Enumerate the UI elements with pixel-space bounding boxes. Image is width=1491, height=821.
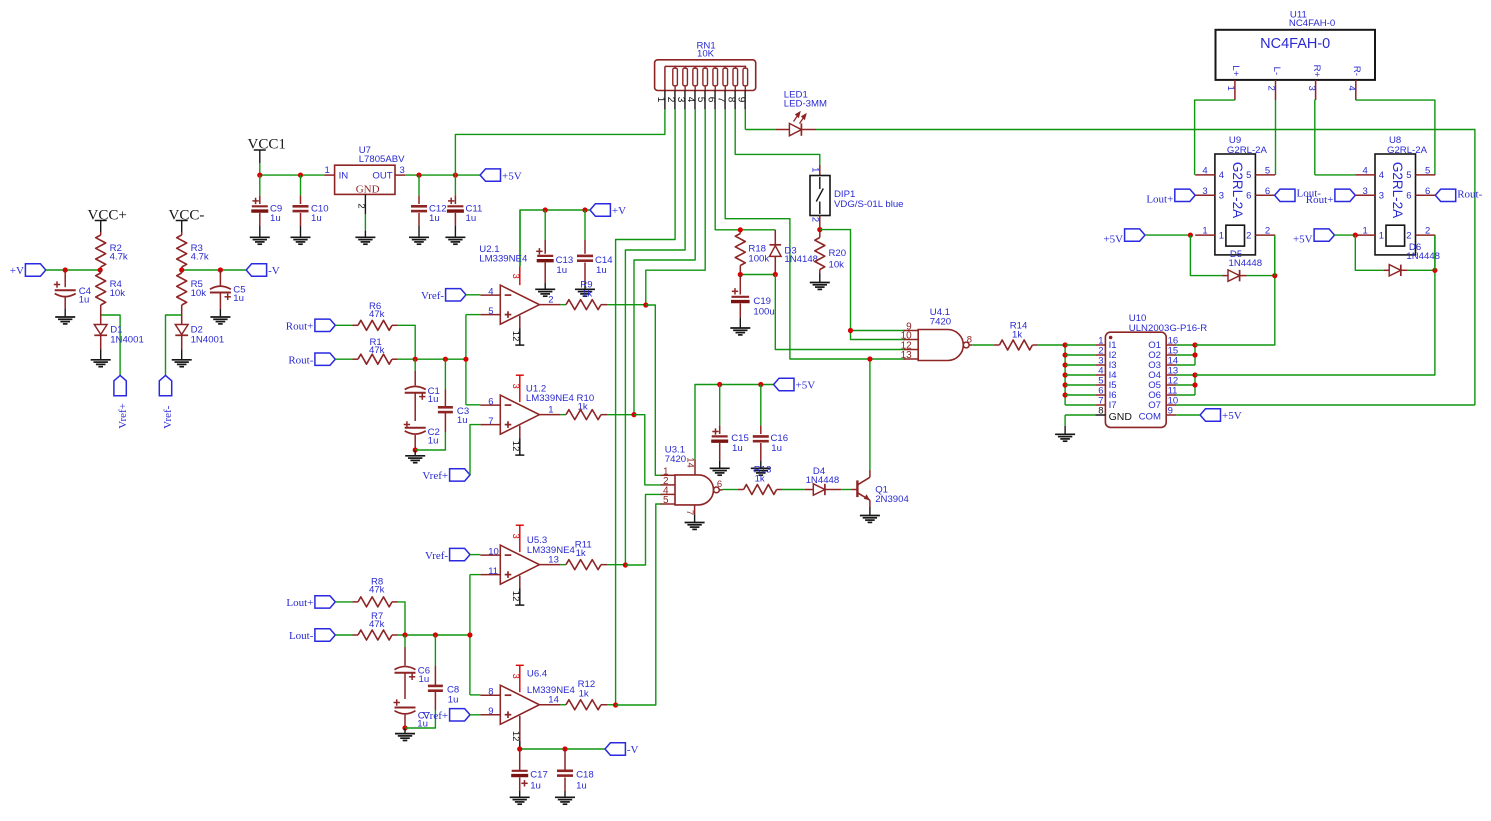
resistor R2 xyxy=(96,232,106,270)
svg-text:3: 3 xyxy=(675,97,686,103)
ground xyxy=(860,516,880,523)
junction xyxy=(298,173,303,178)
svg-text:1u: 1u xyxy=(448,694,459,705)
capacitor C17 xyxy=(511,749,528,797)
svg-text:VCC+: VCC+ xyxy=(88,208,127,224)
wire RN1 pin8 net xyxy=(735,109,820,165)
svg-text:11: 11 xyxy=(488,566,498,577)
junction xyxy=(416,173,421,178)
junction xyxy=(1063,352,1068,357)
svg-text:6: 6 xyxy=(1246,191,1251,202)
svg-text:5: 5 xyxy=(695,97,706,103)
svg-text:Lout+: Lout+ xyxy=(1146,194,1173,206)
svg-text:3: 3 xyxy=(510,674,521,679)
label C16 1u xyxy=(771,433,789,454)
wire R11 out xyxy=(607,564,625,566)
port +5V xyxy=(480,169,522,182)
capacitor C10 xyxy=(293,175,309,237)
junction xyxy=(1272,273,1277,278)
label R8 47k xyxy=(369,577,385,596)
junction xyxy=(631,412,636,417)
ground xyxy=(55,317,75,324)
label C13 1u xyxy=(556,255,574,276)
svg-text:4: 4 xyxy=(1202,166,1207,177)
ground xyxy=(250,237,270,244)
capacitor C12 xyxy=(411,175,427,237)
svg-text:1u: 1u xyxy=(771,443,782,454)
junction xyxy=(1188,233,1193,238)
svg-text:U6.4: U6.4 xyxy=(527,668,548,679)
svg-text:I7: I7 xyxy=(1109,400,1117,411)
svg-text:10k: 10k xyxy=(110,288,126,299)
svg-text:1u: 1u xyxy=(732,443,743,454)
capacitor C16 xyxy=(753,385,769,469)
power flag VCC- xyxy=(169,208,205,232)
junction xyxy=(1432,268,1437,273)
label R11 1k xyxy=(575,539,592,559)
wire RN1 pin6 net xyxy=(715,109,775,229)
wire LED to O7 riser xyxy=(816,130,1475,406)
label C8 1u xyxy=(447,685,459,706)
wire Vref- to pin10 xyxy=(470,554,480,556)
wire U11 pin3 to U8 pin4 xyxy=(1314,100,1317,175)
junction xyxy=(413,447,418,452)
svg-text:1u: 1u xyxy=(596,265,607,276)
label U7 L7805ABV xyxy=(359,145,405,165)
label C1 1u xyxy=(428,386,440,405)
port Rout- xyxy=(1435,189,1482,202)
wire pin5 net xyxy=(466,315,481,405)
svg-text:1k: 1k xyxy=(755,474,765,485)
LED LED1 xyxy=(775,112,816,136)
svg-text:Vref-: Vref- xyxy=(162,405,174,428)
port Lout- xyxy=(1275,188,1322,202)
junction xyxy=(738,227,743,232)
label R9 1k xyxy=(580,280,592,300)
wire O1 net riser xyxy=(1195,235,1275,345)
wire O1-O3 bus xyxy=(1176,345,1195,365)
svg-text:1u: 1u xyxy=(466,213,477,224)
wire D6 to U8 coil net xyxy=(1408,269,1435,271)
wire Rout row xyxy=(398,358,466,360)
junction xyxy=(443,357,448,362)
svg-text:C17: C17 xyxy=(530,770,548,781)
wire U11 pin4 to U8 pin5 xyxy=(1356,100,1435,175)
label U5.3 LM339NE4 xyxy=(527,535,576,556)
svg-text:ULN2003G-P16-R: ULN2003G-P16-R xyxy=(1129,323,1207,334)
wire R9 to U3 pin1 xyxy=(646,305,661,475)
label R1 47k xyxy=(369,337,385,356)
port +V xyxy=(10,264,46,277)
diode D5 xyxy=(1223,270,1247,281)
svg-text:10K: 10K xyxy=(697,48,715,59)
junction xyxy=(257,173,262,178)
label R18 100k xyxy=(748,244,769,265)
wire U8 pin2 down xyxy=(1434,235,1436,270)
label RN1 10K xyxy=(697,40,716,59)
wire R8 elbow xyxy=(398,602,406,635)
wire R18-D3 bottoms xyxy=(740,274,775,276)
svg-text:7: 7 xyxy=(488,416,493,427)
resistor R18 xyxy=(735,230,745,275)
junction xyxy=(1353,233,1358,238)
label U3.1 7420 xyxy=(665,444,686,465)
label U9 G2RL-2A xyxy=(1227,135,1268,156)
wire C8 to ground node xyxy=(405,710,435,728)
svg-text:1u: 1u xyxy=(419,674,430,685)
wire to U10 input xyxy=(1065,374,1095,376)
junction xyxy=(1192,372,1197,377)
svg-text:1u: 1u xyxy=(457,415,468,426)
diode D1 xyxy=(94,310,107,360)
svg-text:1k: 1k xyxy=(579,689,589,700)
capacitor C11 xyxy=(447,175,464,237)
port Vref+ xyxy=(422,709,470,722)
wire O7 net xyxy=(1176,404,1475,406)
wire +5V to U8 pin1 xyxy=(1335,234,1356,236)
capacitor C6 xyxy=(395,635,416,699)
wire DIP1 to U4 inputs xyxy=(820,230,906,331)
label R14 1k xyxy=(1010,320,1028,340)
svg-text:4: 4 xyxy=(1346,86,1357,91)
wire R14 to U10 inputs xyxy=(1038,344,1065,346)
label C15 1u xyxy=(731,433,749,454)
wire to U10 input xyxy=(1065,384,1095,386)
resistor R8 xyxy=(335,597,397,607)
svg-text:1N4148: 1N4148 xyxy=(784,254,818,265)
port Vref- xyxy=(421,289,466,302)
ground xyxy=(91,360,111,367)
svg-text:C19: C19 xyxy=(753,296,771,307)
label R20 10k xyxy=(829,248,847,270)
svg-text:2: 2 xyxy=(1265,226,1270,237)
junction xyxy=(413,357,418,362)
diode D2 xyxy=(175,310,188,360)
connector U11 NC4FAH-0 xyxy=(1216,30,1376,100)
label C5 1u xyxy=(233,284,245,304)
svg-text:O7: O7 xyxy=(1148,400,1161,411)
svg-text:6: 6 xyxy=(705,97,716,103)
svg-text:1: 1 xyxy=(810,167,821,172)
svg-text:GND: GND xyxy=(1109,411,1133,423)
wire RN1 pin7 net xyxy=(725,109,905,359)
wire U11 pin1 to U9 pin4 xyxy=(1195,100,1235,175)
wire VCC1 rail xyxy=(260,174,480,176)
junction xyxy=(848,328,853,333)
svg-text:Vref-: Vref- xyxy=(421,290,444,302)
capacitor C1 xyxy=(405,359,426,421)
ground xyxy=(730,328,750,335)
op-amp U5.3 xyxy=(500,545,539,584)
port Vref- xyxy=(425,548,470,561)
label C4 1u xyxy=(79,286,92,306)
label R6 47k xyxy=(369,301,385,320)
label R2 4.7k xyxy=(110,243,128,263)
switch DIP1 xyxy=(810,165,830,230)
wire +5V rail U3 xyxy=(695,385,774,460)
port +5V xyxy=(1103,229,1145,245)
wire to Vref- port xyxy=(166,315,182,375)
svg-text:1u: 1u xyxy=(270,213,281,224)
svg-text:13: 13 xyxy=(901,350,913,361)
capacitor C2 xyxy=(404,421,426,450)
svg-text:VCC1: VCC1 xyxy=(248,137,286,153)
svg-text:LED-3MM: LED-3MM xyxy=(784,99,827,110)
resistor network RN1 xyxy=(655,60,756,91)
svg-text:3: 3 xyxy=(1306,86,1317,91)
label LED1 LED-3MM xyxy=(784,89,827,109)
svg-text:4.7k: 4.7k xyxy=(191,252,209,263)
op-amp U6.4 xyxy=(500,685,539,724)
svg-text:NC4FAH-0: NC4FAH-0 xyxy=(1260,36,1330,52)
svg-text:R-: R- xyxy=(1351,66,1362,76)
ground xyxy=(685,523,705,530)
svg-text:2: 2 xyxy=(1406,230,1411,241)
junction xyxy=(1063,342,1068,347)
wire +5V to RN1 pin1 xyxy=(455,109,665,175)
wire U10 input bus xyxy=(1064,345,1066,405)
diode D3 xyxy=(770,230,782,275)
wire RN1 pin9 to LED xyxy=(744,109,746,129)
wire U9 pin2 down xyxy=(1274,235,1276,276)
label U6.4 LM339NE4 xyxy=(527,668,576,696)
wire Vref+ to pin7 xyxy=(470,425,480,475)
svg-text:1k: 1k xyxy=(576,548,586,559)
label R3 4.7k xyxy=(191,243,209,263)
svg-text:4: 4 xyxy=(685,97,696,103)
svg-text:7420: 7420 xyxy=(665,454,686,465)
junction xyxy=(738,272,743,277)
port Lout+ xyxy=(286,596,335,609)
ground xyxy=(535,289,555,296)
svg-text:13: 13 xyxy=(548,554,559,565)
svg-text:2: 2 xyxy=(810,217,821,222)
wire R10 to U3 pin2 xyxy=(634,415,661,485)
svg-text:3: 3 xyxy=(1219,191,1224,202)
junction xyxy=(1063,362,1068,367)
wire R10 out xyxy=(607,414,634,416)
resistor R3 xyxy=(177,232,187,270)
port -V xyxy=(246,264,280,277)
svg-text:NC4FAH-0: NC4FAH-0 xyxy=(1289,18,1335,29)
resistor R10 xyxy=(560,410,607,420)
junction xyxy=(179,267,184,272)
capacitor C5 xyxy=(210,270,231,317)
wire O4 net riser xyxy=(1195,235,1435,375)
svg-text:L+: L+ xyxy=(1230,65,1241,76)
svg-text:5: 5 xyxy=(488,306,493,317)
junction xyxy=(63,267,68,272)
svg-text:2N3904: 2N3904 xyxy=(875,494,909,505)
wire COM to +5V xyxy=(1176,414,1200,416)
svg-text:LM339NE4: LM339NE4 xyxy=(479,254,528,265)
capacitor C13 xyxy=(536,210,554,289)
wire U10 GND xyxy=(1065,415,1095,434)
svg-text:1: 1 xyxy=(1363,226,1368,237)
label C9 1u xyxy=(270,204,282,224)
ground xyxy=(405,450,425,463)
capacitor C18 xyxy=(557,749,573,797)
NAND gate U4.1 xyxy=(901,322,973,362)
svg-text:OUT: OUT xyxy=(372,171,392,182)
wire C3 to ground node xyxy=(415,432,445,450)
svg-text:1u: 1u xyxy=(556,265,567,276)
wire U11 pin2 to U9 pin5 xyxy=(1275,100,1277,175)
svg-text:2: 2 xyxy=(665,97,676,103)
label D5 1N4448 xyxy=(1229,249,1263,269)
wire to U10 input xyxy=(1065,344,1095,346)
port Vref- xyxy=(159,375,174,428)
diode D6 xyxy=(1384,265,1408,276)
svg-text:L7805ABV: L7805ABV xyxy=(359,154,405,165)
label C14 1u xyxy=(595,255,613,276)
wire R12 to U3 pin5 xyxy=(616,504,661,705)
resistor R5 xyxy=(177,270,187,310)
svg-text:2: 2 xyxy=(356,203,367,208)
svg-text:G2RL-2A: G2RL-2A xyxy=(1227,145,1268,156)
svg-text:5: 5 xyxy=(1246,170,1251,181)
wire U9 pin1 to D5 xyxy=(1190,235,1222,276)
wire Lout row xyxy=(398,634,470,636)
svg-text:47k: 47k xyxy=(369,345,385,356)
svg-text:1: 1 xyxy=(548,404,553,415)
ground xyxy=(575,289,595,296)
label C18 1u xyxy=(576,770,594,792)
svg-text:1u: 1u xyxy=(233,293,244,304)
ground xyxy=(555,797,575,804)
label D4 1N4448 xyxy=(806,466,840,486)
svg-text:2: 2 xyxy=(1425,226,1430,237)
capacitor C14 xyxy=(577,210,593,289)
svg-text:3: 3 xyxy=(400,165,405,176)
svg-text:L-: L- xyxy=(1271,67,1282,76)
svg-text:8: 8 xyxy=(725,97,736,103)
svg-text:G2RL-2A: G2RL-2A xyxy=(1230,162,1245,218)
svg-text:6: 6 xyxy=(717,479,722,490)
svg-text:1: 1 xyxy=(1219,230,1224,241)
svg-text:6: 6 xyxy=(488,397,493,408)
svg-text:47k: 47k xyxy=(369,585,385,596)
svg-text:R+: R+ xyxy=(1311,65,1322,78)
svg-text:10k: 10k xyxy=(191,288,207,299)
wire -V row xyxy=(520,748,605,750)
resistor R1 xyxy=(335,354,397,364)
port +5V xyxy=(774,378,816,391)
port Vref+ xyxy=(114,375,129,428)
junction xyxy=(1192,352,1197,357)
svg-text:1: 1 xyxy=(325,165,330,176)
ground xyxy=(710,468,730,475)
wire R12 out xyxy=(607,704,616,706)
capacitor C19 xyxy=(731,275,750,329)
svg-text:1N4448: 1N4448 xyxy=(1229,258,1263,269)
wire +V rail xyxy=(46,269,101,271)
port Rout+ xyxy=(286,319,336,332)
svg-text:1N4448: 1N4448 xyxy=(806,475,840,486)
svg-text:VDG/S-01L blue: VDG/S-01L blue xyxy=(834,199,904,210)
label U1.2 LM339NE4 R10 1k xyxy=(526,383,594,412)
label DIP1 VDG/S-01L blue xyxy=(834,189,904,210)
junction xyxy=(613,702,618,707)
label R12 1k xyxy=(578,679,596,700)
svg-text:IN: IN xyxy=(339,171,349,182)
capacitor C4 xyxy=(54,270,76,317)
svg-text:LM339NE4: LM339NE4 xyxy=(527,685,576,696)
svg-text:5: 5 xyxy=(1406,170,1411,181)
relay U9 G2RL-2A xyxy=(1195,154,1275,255)
ground xyxy=(210,317,230,324)
svg-text:1N4001: 1N4001 xyxy=(191,335,225,346)
svg-text:1u: 1u xyxy=(429,213,440,224)
wire D4 to Q1 base xyxy=(825,489,841,491)
svg-text:10k: 10k xyxy=(829,259,845,270)
junction xyxy=(453,173,458,178)
svg-text:LM339NE4: LM339NE4 xyxy=(527,545,576,556)
junction xyxy=(517,746,522,751)
resistor R20 xyxy=(815,230,825,283)
junction xyxy=(582,207,587,212)
junction xyxy=(218,267,223,272)
wire RN1 pin4 net xyxy=(634,109,695,414)
junction xyxy=(773,272,778,277)
op-amp U2.1 xyxy=(480,210,560,345)
label C7 1u xyxy=(417,711,430,730)
ground xyxy=(291,237,311,244)
label U10 ULN2003G-P16-R xyxy=(1129,313,1207,334)
junction xyxy=(402,632,407,637)
svg-text:1k: 1k xyxy=(582,288,592,299)
svg-text:3: 3 xyxy=(510,533,521,538)
label R4 10k xyxy=(110,279,126,299)
svg-text:3: 3 xyxy=(1379,191,1384,202)
svg-text:1N4001: 1N4001 xyxy=(110,335,144,346)
port -V xyxy=(605,743,639,756)
junction xyxy=(1063,392,1068,397)
svg-text:12: 12 xyxy=(510,441,521,452)
svg-text:9: 9 xyxy=(488,706,493,717)
label C12 1u xyxy=(429,204,447,224)
port Vref+ xyxy=(422,469,470,482)
svg-text:2: 2 xyxy=(548,294,553,305)
label Q1 2N3904 xyxy=(875,485,909,506)
wire U7 pin2 to ground xyxy=(364,214,366,231)
wire D5 to U9 coil net xyxy=(1247,275,1275,277)
label R7 47k xyxy=(369,611,385,630)
svg-text:100k: 100k xyxy=(748,254,769,265)
capacitor C7 xyxy=(394,699,416,728)
junction xyxy=(543,207,548,212)
junction xyxy=(817,227,822,232)
svg-text:47k: 47k xyxy=(369,619,385,630)
wire RN1 pin2 net xyxy=(616,109,676,705)
wire to U10 input xyxy=(1065,394,1095,396)
wire O4-O6 bus xyxy=(1176,375,1195,395)
junction xyxy=(867,356,872,361)
ground xyxy=(510,797,530,804)
label C6 1u xyxy=(418,666,430,685)
svg-text:R20: R20 xyxy=(829,248,847,259)
ground xyxy=(395,728,415,741)
svg-text:12: 12 xyxy=(510,731,521,742)
label D1 1N4001 xyxy=(110,324,144,345)
svg-text:3: 3 xyxy=(1202,186,1207,197)
label U8 G2RL-2A xyxy=(1387,135,1428,156)
svg-text:Vref-: Vref- xyxy=(425,550,448,562)
capacitor C8 xyxy=(428,635,443,710)
svg-text:14: 14 xyxy=(684,457,695,468)
svg-text:9: 9 xyxy=(1168,406,1173,417)
svg-text:4: 4 xyxy=(1219,170,1224,181)
